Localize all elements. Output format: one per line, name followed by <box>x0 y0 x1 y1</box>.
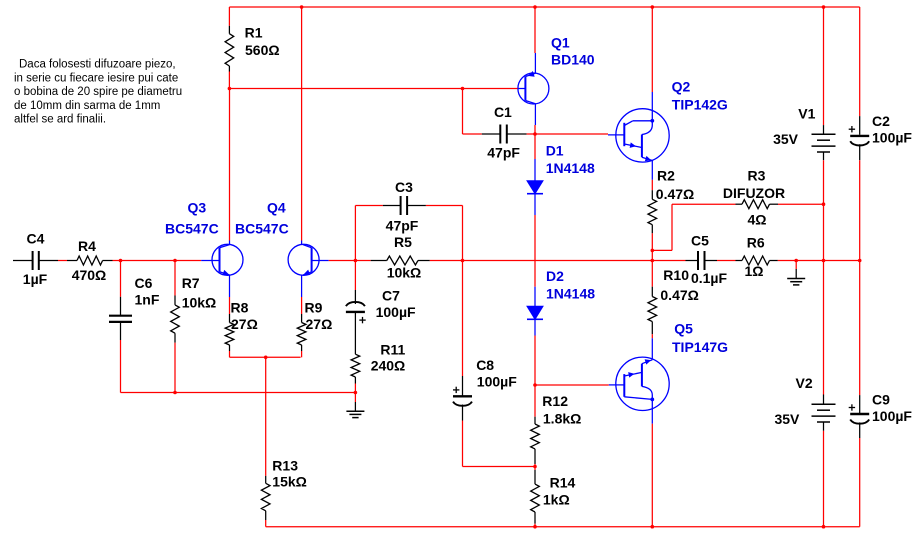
svg-text:TIP142G: TIP142G <box>672 97 728 113</box>
capacitor C9 <box>849 392 912 527</box>
wire C1 branch <box>463 89 482 135</box>
wire mid rail left <box>113 260 202 262</box>
svg-text:R4: R4 <box>78 238 96 254</box>
resistor R2 <box>648 168 694 251</box>
transistor Q3 <box>165 200 243 298</box>
svg-text:35V: 35V <box>774 411 800 427</box>
svg-text:15kΩ: 15kΩ <box>272 473 307 489</box>
svg-text:TIP147G: TIP147G <box>672 339 728 355</box>
svg-text:100µF: 100µF <box>376 304 416 320</box>
svg-text:R8: R8 <box>231 300 249 316</box>
node C1-D1-Q2base junction <box>533 132 537 136</box>
capacitor C1 <box>482 104 535 161</box>
svg-text:1Ω: 1Ω <box>744 263 763 279</box>
svg-text:R13: R13 <box>272 458 298 474</box>
note text <box>14 59 182 126</box>
svg-text:DIFUZOR: DIFUZOR <box>723 185 785 201</box>
node R2 bottom junction <box>651 249 655 253</box>
svg-text:R14: R14 <box>550 475 576 491</box>
node C6 junction <box>119 259 123 263</box>
transistor Q1 <box>518 35 595 126</box>
svg-text:27Ω: 27Ω <box>231 316 258 332</box>
wire C3 right down <box>462 206 464 261</box>
svg-text:V2: V2 <box>796 375 813 391</box>
resistor R5 <box>355 234 429 280</box>
node R3 to V1 rail junction <box>822 202 826 206</box>
svg-text:1N4148: 1N4148 <box>546 160 595 176</box>
svg-text:R7: R7 <box>182 275 200 291</box>
svg-text:de 10mm din sarma de 1mm: de 10mm din sarma de 1mm <box>14 100 160 112</box>
wire C3 branch up <box>354 206 356 261</box>
svg-text:R12: R12 <box>542 393 568 409</box>
svg-text:Q1: Q1 <box>551 35 570 51</box>
svg-text:100µF: 100µF <box>872 130 912 146</box>
svg-text:Q3: Q3 <box>188 200 207 216</box>
svg-text:C5: C5 <box>691 233 709 249</box>
resistor R9 <box>297 297 332 357</box>
svg-text:C1: C1 <box>494 104 512 120</box>
svg-text:Q2: Q2 <box>672 79 691 95</box>
node R5 left junction <box>354 259 358 263</box>
battery V2 <box>774 375 835 527</box>
svg-text:C9: C9 <box>872 392 890 408</box>
svg-text:BC547C: BC547C <box>235 221 289 237</box>
svg-text:C7: C7 <box>382 288 400 304</box>
node C1 branch junction <box>461 87 465 91</box>
node Q2 top junction <box>651 5 655 9</box>
wire C2 rail <box>859 160 861 395</box>
wire D1 to D2 <box>534 215 536 287</box>
svg-text:o bobina de 20 spire pe diamet: o bobina de 20 spire pe diametru <box>14 86 182 98</box>
svg-text:C4: C4 <box>27 230 45 246</box>
node output rail junction <box>651 259 655 263</box>
wire R2 to mid rail <box>651 250 653 260</box>
svg-text:C6: C6 <box>135 275 153 291</box>
wire Q1 collector <box>534 125 536 134</box>
diode D1 <box>527 134 595 215</box>
capacitor C5 <box>686 233 736 286</box>
svg-text:Q5: Q5 <box>674 321 693 337</box>
wire Q3 collector <box>229 89 231 241</box>
wire Q5 collector bottom <box>651 424 653 527</box>
node R7 bottom junction <box>173 391 177 395</box>
node D2-R12-Q5 junction <box>533 383 537 387</box>
svg-text:1N4148: 1N4148 <box>546 286 595 302</box>
node ground tap junction <box>794 259 798 263</box>
svg-text:240Ω: 240Ω <box>371 358 406 374</box>
node R7 junction <box>173 259 177 263</box>
resistor R7 <box>171 261 217 393</box>
node R14 bottom junction <box>533 525 537 529</box>
svg-text:R10: R10 <box>663 267 689 283</box>
resistor R11 <box>351 341 405 392</box>
svg-text:27Ω: 27Ω <box>306 316 333 332</box>
capacitor C7 <box>346 261 416 355</box>
capacitor C2 <box>849 7 912 160</box>
node R11 bottom junction <box>354 391 358 395</box>
capacitor C6 <box>109 261 160 393</box>
svg-text:in serie cu fiecare iesire pui: in serie cu fiecare iesire pui cate <box>14 72 178 84</box>
svg-text:35V: 35V <box>773 131 799 147</box>
battery V1 <box>773 7 835 160</box>
wire mid rail center <box>430 260 686 262</box>
resistor R6 <box>736 235 778 279</box>
node emitters junction <box>264 356 268 360</box>
capacitor C4 <box>23 230 67 287</box>
svg-text:R6: R6 <box>747 235 765 251</box>
svg-text:47pF: 47pF <box>487 145 520 161</box>
ground at R6 <box>787 261 805 285</box>
transistor Q2 TIP142G <box>608 79 728 180</box>
wire R1-bottom horizontal <box>229 88 462 90</box>
diode D2 <box>527 268 595 336</box>
resistor R8 <box>225 297 258 357</box>
svg-text:BD140: BD140 <box>551 52 595 68</box>
svg-text:1nF: 1nF <box>135 292 160 308</box>
node Q1 top junction <box>533 5 537 9</box>
wire mid rail right <box>778 260 860 262</box>
svg-text:0.47Ω: 0.47Ω <box>656 186 694 202</box>
node Q4 collector top <box>300 5 304 9</box>
wire Q2 collector top <box>651 7 653 92</box>
capacitor C3 <box>355 179 462 233</box>
svg-text:C3: C3 <box>395 179 413 195</box>
wire top rail <box>229 6 859 8</box>
transistor Q5 TIP147G <box>609 321 728 424</box>
resistor R14 <box>531 467 576 527</box>
node V1 top junction <box>822 5 826 9</box>
wire Q4 collector <box>301 7 303 241</box>
svg-text:10kΩ: 10kΩ <box>387 264 422 280</box>
node V1 rail mid junction <box>822 259 826 263</box>
svg-text:4Ω: 4Ω <box>747 211 766 227</box>
wire bottom rail <box>266 526 860 528</box>
svg-text:R1: R1 <box>245 24 263 40</box>
resistor R4 <box>67 238 113 283</box>
svg-text:R11: R11 <box>380 341 405 357</box>
svg-text:1kΩ: 1kΩ <box>543 492 570 508</box>
resistor R1 <box>225 7 279 89</box>
svg-text:Daca folosesti difuzoare piezo: Daca folosesti difuzoare piezo, <box>19 59 176 71</box>
svg-text:D1: D1 <box>546 143 564 159</box>
resistor R12 <box>531 385 582 467</box>
svg-text:10kΩ: 10kΩ <box>182 295 217 311</box>
svg-text:V1: V1 <box>798 105 815 121</box>
node R1 bottom junction <box>228 87 232 91</box>
svg-text:100µF: 100µF <box>872 408 912 424</box>
svg-text:D2: D2 <box>546 268 564 284</box>
svg-text:Q4: Q4 <box>267 200 286 216</box>
capacitor C8 <box>453 261 535 467</box>
svg-text:1.8kΩ: 1.8kΩ <box>543 411 581 427</box>
svg-text:R9: R9 <box>305 300 323 316</box>
node V2 bottom junction <box>822 525 826 529</box>
svg-text:100µF: 100µF <box>477 374 517 390</box>
svg-text:C8: C8 <box>476 357 494 373</box>
wire V1 rail <box>823 160 825 394</box>
resistor R10 <box>648 261 699 339</box>
node R12-C8 junction <box>533 465 537 469</box>
svg-text:R5: R5 <box>394 234 412 250</box>
wire Q2 base <box>535 133 608 135</box>
resistor R3 DIFUZOR <box>723 168 824 228</box>
svg-text:0.47Ω: 0.47Ω <box>660 287 698 303</box>
svg-text:560Ω: 560Ω <box>245 42 280 58</box>
wire Q1 emitter top <box>534 7 536 53</box>
resistor R13 <box>261 458 306 527</box>
wire emitters join <box>230 356 301 358</box>
ground below R11 <box>346 393 364 418</box>
svg-text:0.1µF: 0.1µF <box>691 270 728 286</box>
node C2 rail mid junction <box>858 259 862 263</box>
wire bottom-left rail <box>121 392 356 394</box>
wire R13 branch <box>265 357 267 476</box>
svg-text:R2: R2 <box>657 168 675 184</box>
svg-text:altfel se ard finalii.: altfel se ard finalii. <box>14 114 106 126</box>
wire C4 input stub <box>13 260 33 262</box>
transistor Q4 <box>235 200 329 298</box>
svg-text:C2: C2 <box>872 113 890 129</box>
svg-text:1µF: 1µF <box>23 271 48 287</box>
wire Q4 base to node <box>329 260 356 262</box>
wire R3 loop <box>652 204 735 250</box>
wire Q1 base <box>463 88 518 90</box>
node Q5 bottom junction <box>651 525 655 529</box>
wire Q5 base <box>535 384 609 386</box>
svg-text:BC547C: BC547C <box>165 221 219 237</box>
wire D2 to base node <box>534 336 536 386</box>
svg-text:R3: R3 <box>748 168 766 184</box>
svg-text:470Ω: 470Ω <box>72 267 107 283</box>
svg-text:47pF: 47pF <box>386 218 419 234</box>
node C8 branch junction <box>461 259 465 263</box>
